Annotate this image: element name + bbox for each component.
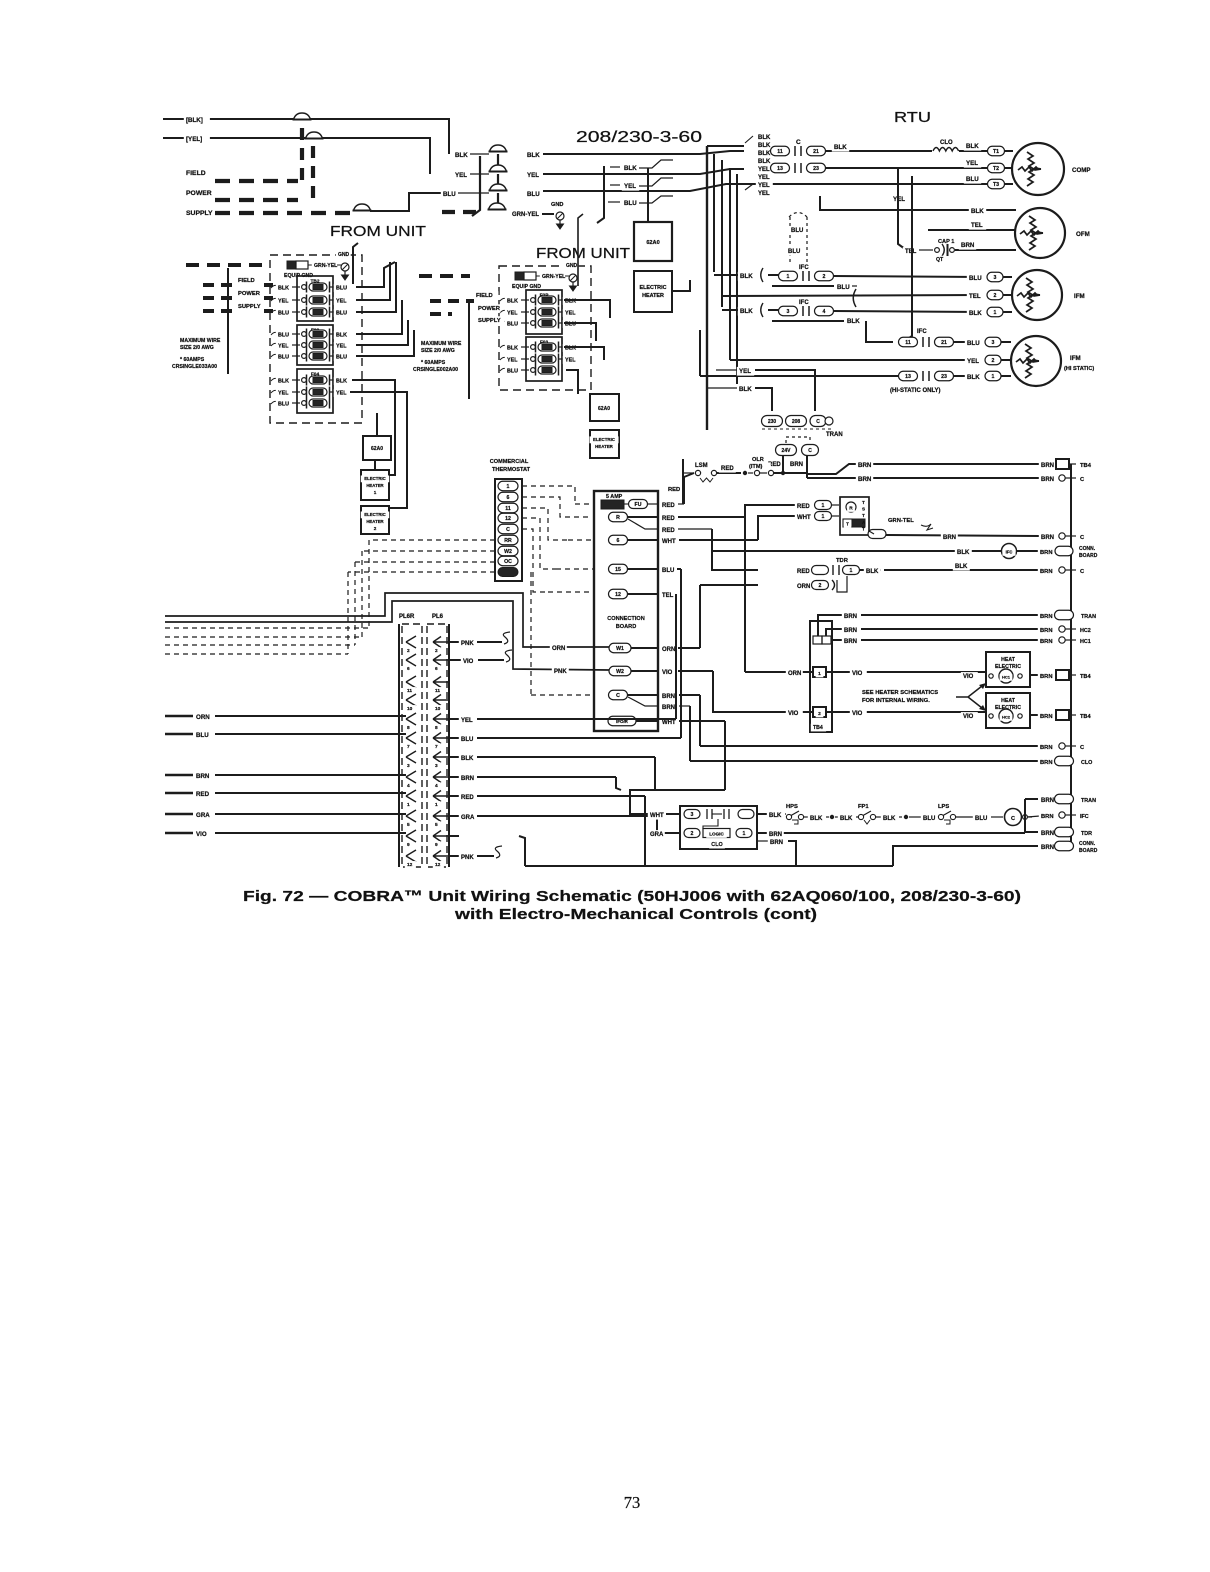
svg-text:TEL: TEL [969, 293, 981, 300]
svg-text:2: 2 [691, 831, 694, 837]
terminal 1 IFM [987, 307, 1003, 317]
dashed supply line [215, 211, 352, 215]
svg-text:BLU: BLU [278, 402, 289, 408]
dashed tstat left wire W2 [362, 550, 495, 552]
unit1 top dashed row [186, 263, 266, 267]
svg-text:73: 73 [624, 1493, 641, 1512]
svg-text:ORN: ORN [797, 584, 810, 590]
svg-text:BLU: BLU [336, 355, 347, 361]
svg-text:YEL: YEL [507, 311, 518, 317]
svg-text:POWER: POWER [478, 306, 501, 312]
wire ORN out of W1 [631, 647, 659, 649]
equip gnd lug 2 [515, 272, 524, 280]
unit1 label POWER [236, 289, 261, 297]
svg-text:BRN: BRN [1041, 477, 1054, 483]
wire row 846 to bus [893, 846, 1038, 866]
svg-text:GND: GND [551, 202, 563, 208]
thermostat terminal W2 [498, 546, 518, 556]
switch FP1 [858, 814, 863, 819]
svg-text:1: 1 [850, 568, 853, 574]
svg-text:BRN: BRN [1041, 463, 1054, 469]
fuse block TB2 unit1 row 3 (BLU) [271, 310, 278, 313]
oval terminal TRAN 615 [1055, 610, 1074, 620]
svg-text:MAXIMUM WIRE: MAXIMUM WIRE [421, 341, 462, 347]
svg-text:VIO: VIO [963, 674, 974, 680]
wire VIO into TB4 sq2 [758, 711, 813, 713]
svg-text:BLK: BLK [278, 286, 289, 292]
svg-text:2: 2 [818, 711, 821, 717]
IFC row1 contact 1-2 [768, 274, 779, 276]
contactor contact BLK 11-21 [771, 146, 790, 156]
label OLR ITM [750, 455, 766, 463]
svg-text:BLK: BLK [336, 379, 347, 385]
contactor coil C circle [1005, 809, 1022, 826]
svg-text:BLK: BLK [740, 273, 753, 280]
svg-text:MAXIMUM WIRE: MAXIMUM WIRE [180, 338, 221, 344]
svg-text:YEL: YEL [455, 172, 467, 179]
wire BRN from CLO to row832 [757, 832, 1025, 834]
thermostat terminal 1 [498, 481, 518, 491]
svg-text:6: 6 [507, 495, 510, 501]
label VIO before HC2 [961, 712, 978, 721]
svg-text:RED: RED [196, 791, 210, 798]
label POWER [184, 188, 212, 197]
gnd riser unit2 [578, 214, 583, 286]
svg-text:HC1: HC1 [1080, 639, 1091, 645]
unit1 label FIELD [236, 276, 261, 284]
terminal 1 IFM2 [985, 371, 1001, 381]
wire pin9 stub [450, 835, 459, 837]
svg-text:BLK: BLK [840, 816, 853, 822]
svg-text:IFC: IFC [799, 265, 809, 271]
vertical feeder to 62A0 upper [647, 168, 649, 222]
wire YEL to T2 [826, 167, 987, 169]
maximum wire note unit2 [419, 340, 467, 348]
svg-text:YEL: YEL [758, 175, 770, 181]
svg-text:POWER: POWER [238, 291, 261, 297]
svg-text:CAP 1: CAP 1 [938, 239, 954, 245]
svg-text:BOARD: BOARD [1079, 848, 1098, 854]
svg-text:HC2: HC2 [1002, 715, 1011, 720]
svg-text:YEL: YEL [758, 167, 770, 173]
terminal T2 COMP [988, 163, 1005, 173]
FROM UNIT 1 dashed enclosure [270, 255, 362, 423]
label BLK row left [453, 151, 470, 160]
svg-text:VIO: VIO [788, 711, 799, 717]
connector pin pair 2 [406, 636, 416, 648]
wire BRN row 478 to bus [807, 477, 1040, 479]
fuse block unit2 upper row 1 (BLK) [500, 298, 507, 301]
svg-text:OLR: OLR [752, 457, 764, 463]
trunk vertical V1 heavy [706, 146, 708, 430]
svg-text:6: 6 [617, 538, 620, 544]
svg-text:SUPPLY: SUPPLY [478, 318, 501, 324]
wire heater box to right [672, 280, 690, 291]
svg-text:GRA: GRA [196, 812, 210, 819]
svg-text:CONN.: CONN. [1079, 546, 1096, 552]
svg-text:62A0: 62A0 [646, 240, 659, 246]
svg-text:FOR INTERNAL WIRING.: FOR INTERNAL WIRING. [862, 698, 930, 704]
svg-text:ELECTRIC: ELECTRIC [640, 285, 667, 291]
svg-text:YEL: YEL [739, 368, 751, 375]
wire to GND [542, 213, 554, 215]
svg-text:W2: W2 [504, 549, 512, 555]
label GRN-YEL [510, 210, 544, 219]
label [BLK] [184, 116, 210, 125]
svg-text:10: 10 [407, 706, 413, 712]
connector pin pair 7 [406, 732, 416, 744]
unit1 label SUPPLY [236, 302, 265, 310]
wire BLK from TDR [860, 569, 881, 571]
svg-text:BLU: BLU [966, 176, 979, 183]
svg-text:HEATER: HEATER [366, 483, 384, 488]
svg-text:BLK: BLK [967, 374, 980, 381]
trunk vertical V4 [729, 168, 731, 360]
svg-text:T: T [862, 526, 865, 531]
PL6 solid right edge [448, 624, 450, 867]
svg-text:IFC: IFC [799, 300, 809, 306]
cap splice on L2 [306, 132, 323, 139]
stacked labels BLK x4 [756, 133, 773, 142]
svg-text:VIO: VIO [662, 670, 673, 676]
thermostat terminal 12 [498, 513, 518, 523]
fuse block F03 unit1 row 1 (BLU) [271, 332, 278, 335]
svg-text:1: 1 [787, 274, 790, 280]
svg-text:ORN: ORN [662, 647, 675, 653]
vertical from bottom wire up [519, 836, 525, 866]
svg-text:GRA: GRA [461, 815, 475, 821]
unit1 dashed stubs right [264, 283, 277, 287]
wire BRN row 464 to bus [872, 463, 1040, 465]
TRAN dashed base [762, 428, 832, 430]
connector pin pair 5 [406, 810, 416, 822]
svg-text:BLK: BLK [507, 299, 518, 305]
svg-text:LOGIC: LOGIC [709, 832, 724, 837]
label CONNECTION BOARD [604, 614, 648, 622]
svg-text:BRN: BRN [1040, 745, 1053, 751]
svg-text:IFM: IFM [1074, 293, 1085, 300]
svg-text:BOARD: BOARD [1079, 553, 1098, 559]
dashed riser 1 [300, 128, 304, 180]
trunk vertical V5 [736, 174, 738, 384]
svg-text:GRA: GRA [650, 832, 664, 838]
label GRN-YEL 2 [536, 275, 541, 277]
label COMMERCIAL THERMOSTAT [487, 457, 531, 465]
svg-text:with Electro-Mechanical Contro: with Electro-Mechanical Controls (cont) [454, 906, 817, 923]
FROM UNIT 2 dashed enclosure [499, 266, 591, 390]
fuse block unit2 upper [526, 290, 562, 334]
terminal IFO/R [608, 716, 636, 726]
svg-text:62A0: 62A0 [371, 446, 383, 452]
svg-text:5: 5 [407, 822, 410, 828]
label [YEL] [184, 135, 210, 144]
wire YEL drop to cap1 [898, 168, 905, 249]
svg-text:W1: W1 [616, 646, 624, 652]
trunk vertical B from RED517 [744, 517, 746, 585]
note arrow lines [956, 686, 982, 708]
TSTAT block box [840, 497, 869, 535]
trunk vertical D BLU569 [680, 569, 682, 738]
thermostat terminal OC [498, 556, 518, 566]
svg-text:CLO: CLO [711, 842, 722, 848]
svg-text:23: 23 [941, 374, 947, 380]
svg-text:TRAN: TRAN [1081, 614, 1096, 620]
unit1 dashed stubs left [203, 283, 236, 287]
wire ORN left feeder [165, 715, 193, 717]
svg-text:BLU: BLU [196, 732, 209, 739]
dashed tstat left wire RR [369, 539, 495, 541]
svg-text:12: 12 [505, 516, 511, 522]
connector pin pair 10 [406, 694, 416, 706]
wire BLK pin3 elbow to CLO WHT [654, 757, 656, 790]
svg-text:BLU: BLU [278, 311, 289, 317]
unit2 supply bus vertical [468, 300, 470, 399]
unit2 dashed stubs [430, 299, 474, 303]
thermostat terminal 11 [498, 503, 518, 513]
svg-text:GND: GND [566, 263, 578, 269]
wire RED pin1 [450, 795, 459, 797]
wire BLK pin3 [450, 756, 459, 758]
svg-text:11: 11 [435, 688, 440, 694]
trunk vertical I BRN706 [689, 706, 691, 761]
dashed tstat wire 12 [522, 518, 556, 569]
connector pin pair 11 [406, 676, 416, 688]
wire L2 YEL feeder [163, 138, 430, 174]
svg-text:ELECTRIC: ELECTRIC [364, 512, 386, 517]
svg-text:IFM: IFM [1070, 355, 1081, 362]
TRAN secondary 24V [776, 445, 797, 456]
svg-text:BRN: BRN [1040, 628, 1053, 634]
dashed field line [215, 179, 298, 183]
TRAN secondary C [802, 445, 819, 456]
svg-text:BRN: BRN [1040, 569, 1053, 575]
svg-text:HEAT: HEAT [1001, 657, 1016, 663]
svg-text:BLU: BLU [624, 200, 637, 207]
svg-text:BRN: BRN [1040, 714, 1053, 720]
svg-text:1: 1 [374, 490, 377, 495]
svg-text:3: 3 [787, 309, 790, 315]
svg-text:BLU: BLU [507, 322, 518, 328]
svg-text:BRN: BRN [1040, 760, 1053, 766]
svg-text:BLU: BLU [278, 355, 289, 361]
oval terminal CONN BOARD 846 [1055, 841, 1074, 851]
svg-text:YEL: YEL [966, 160, 978, 167]
wire BRN row 815 from coil [1027, 816, 1040, 817]
svg-text:* 60AMPS: * 60AMPS [421, 360, 446, 366]
capacitor CAP1 [903, 247, 920, 256]
label RED tstat row [795, 502, 812, 511]
svg-text:5: 5 [435, 822, 438, 828]
cap on YEL row [490, 165, 507, 172]
wire BLU from 15 [628, 568, 659, 570]
unit1 TB2 risers right [356, 262, 395, 287]
svg-text:BLK: BLK [758, 159, 771, 165]
svg-text:BRN: BRN [1040, 550, 1053, 556]
wire ORN from left to W1 [165, 593, 609, 647]
connector pin pair 12 [406, 850, 416, 862]
svg-text:FROM UNIT: FROM UNIT [330, 223, 426, 240]
svg-text:BLK: BLK [739, 386, 752, 393]
svg-text:RED: RED [797, 569, 810, 575]
oval terminal CLO 761 [1055, 756, 1074, 766]
branch label BLU mid [622, 199, 639, 208]
heat electric box 1 [986, 652, 1030, 687]
note SEE HEATER SCHEMATICS [860, 688, 950, 696]
svg-text:BRN: BRN [1040, 614, 1053, 620]
wire BRN pin4 [450, 776, 459, 778]
svg-text:3: 3 [407, 763, 410, 769]
wire PNK pin2 squiggle [450, 641, 459, 643]
svg-text:YEL: YEL [565, 311, 576, 317]
svg-text:SUPPLY: SUPPLY [186, 210, 213, 217]
wire BLK to T1 [959, 150, 987, 152]
svg-text:PNK: PNK [554, 669, 567, 675]
wire BLK after FP1 [876, 816, 881, 818]
vertical drop to IFC row3 [903, 176, 912, 342]
svg-text:BLK: BLK [740, 308, 753, 315]
unit2 label SUPPLY [476, 316, 505, 324]
svg-text:BLK: BLK [455, 152, 468, 159]
wire VIO out TB4 sq1 [826, 671, 986, 673]
unit2 label FIELD [474, 291, 499, 299]
svg-text:BRN: BRN [790, 462, 803, 468]
wire BRN IFC coil to terminal [1017, 550, 1038, 552]
dashed supply cont [442, 210, 480, 214]
wire RED pin1 drop to bottom wire [644, 796, 646, 866]
svg-text:BLU: BLU [788, 249, 800, 255]
dashed inputs to connection board [568, 539, 594, 541]
wire TEL to IFM terminal 2 [722, 295, 981, 296]
wire elbow into row4 [699, 330, 701, 376]
wire GRA pin5 [450, 815, 459, 817]
svg-text:ORN: ORN [196, 714, 210, 721]
terminal 15 [609, 564, 628, 574]
dashed tstat wire 1 to FU [522, 486, 575, 504]
label CAP 1 [936, 237, 960, 245]
svg-text:WHT: WHT [650, 813, 664, 819]
svg-text:BLK: BLK [461, 756, 474, 762]
cap on BLU row [490, 184, 507, 191]
svg-text:RED: RED [668, 487, 680, 493]
wire BLK to IFC coil row 551 [713, 550, 1001, 552]
wire YEL to IFM2 terminal 2 [730, 359, 980, 361]
wire TSTAT to C row 536 [868, 530, 886, 539]
svg-text:RR: RR [504, 538, 512, 544]
svg-text:11: 11 [905, 340, 911, 346]
fuse block TB2 unit1 row 2 (YEL) [271, 298, 278, 301]
dashed power line [215, 198, 298, 202]
label GRN-YEL 1 [308, 264, 313, 266]
TB4 top squares [813, 636, 822, 644]
svg-text:1: 1 [507, 484, 510, 490]
svg-text:HPS: HPS [786, 804, 798, 810]
svg-text:BRN: BRN [1040, 674, 1053, 680]
svg-text:BRN: BRN [844, 639, 857, 645]
wire YEL phase row [525, 171, 542, 180]
connector pin pair 4 [406, 771, 416, 783]
svg-text:4: 4 [435, 783, 438, 789]
wire BLU branch under row1 [772, 285, 834, 287]
svg-text:BLK: BLK [758, 135, 771, 141]
svg-text:S: S [862, 507, 865, 512]
svg-text:T1: T1 [993, 149, 999, 155]
svg-text:BOARD: BOARD [616, 624, 637, 630]
svg-text:TB4: TB4 [813, 725, 823, 731]
svg-text:GND: GND [338, 252, 350, 258]
hi-static motor IFM2 [1011, 336, 1061, 386]
wire RED to TDR contact [795, 567, 812, 576]
terminal 12 [609, 589, 628, 599]
svg-text:(ITM): (ITM) [749, 464, 762, 470]
svg-text:BRN: BRN [770, 840, 783, 846]
svg-text:1: 1 [435, 802, 438, 808]
wire BRN to OFM [955, 249, 1016, 251]
CLO inner link [703, 819, 718, 829]
svg-text:TEL: TEL [905, 249, 917, 255]
svg-text:BLU: BLU [662, 568, 674, 574]
svg-text:2: 2 [994, 293, 997, 299]
svg-text:CONNECTION: CONNECTION [607, 616, 645, 622]
label PL6 [430, 612, 447, 621]
fuse block F04 unit1 row 1 (BLK) [271, 378, 278, 381]
unit1 supply bus vertical [227, 268, 229, 374]
label GRN-TEL [886, 516, 919, 524]
bottom long wire [525, 865, 796, 867]
junction dot 2 [899, 816, 902, 818]
unit2 label POWER [476, 304, 501, 312]
CLO bottom row [684, 829, 700, 838]
svg-text:VIO: VIO [963, 714, 974, 720]
svg-text:BRN: BRN [858, 462, 872, 469]
svg-text:LSM: LSM [695, 463, 708, 469]
svg-text:15: 15 [615, 567, 621, 573]
svg-text:1: 1 [992, 374, 995, 380]
svg-text:OC: OC [504, 559, 512, 565]
branch label YEL mid [622, 182, 639, 191]
svg-text:SIZE 2/0 AWG: SIZE 2/0 AWG [180, 345, 214, 351]
trunk vertical H BRN695 [699, 695, 701, 746]
heater riser 1 [376, 380, 395, 475]
label QT [934, 256, 946, 264]
svg-text:BRN: BRN [858, 476, 872, 483]
wire RED far-left drop [682, 459, 684, 504]
connector pin pair 9 [406, 830, 416, 842]
label EQUIP GND 1 [282, 272, 319, 280]
svg-text:POWER: POWER [186, 190, 212, 197]
svg-text:BLU: BLU [969, 275, 982, 282]
svg-text:BLK: BLK [527, 152, 540, 159]
svg-text:TB4: TB4 [1080, 714, 1091, 720]
svg-text:TB4: TB4 [1080, 463, 1092, 469]
svg-text:RED: RED [662, 516, 675, 522]
wire BLK mid [835, 816, 838, 818]
terminal 3 IFM2 [985, 337, 1001, 347]
IFC coil circle [1002, 544, 1017, 559]
svg-text:HC2: HC2 [1080, 628, 1091, 634]
fuse block unit2 lower row 1 (BLK) [500, 345, 507, 348]
svg-text:PNK: PNK [461, 641, 474, 647]
wire F04 to 62A0 left [376, 413, 378, 436]
svg-text:5 AMP: 5 AMP [606, 494, 623, 500]
wire VIO pin6 squiggle [450, 659, 461, 661]
svg-text:1: 1 [994, 310, 997, 316]
svg-text:TDR: TDR [1081, 831, 1092, 837]
IFC row2 contact 3-4 [768, 309, 779, 311]
fuse block unit2 upper row 2 (YEL) [500, 310, 507, 313]
junction dot after RED [743, 471, 747, 475]
heater riser 2 [370, 392, 407, 508]
svg-text:7: 7 [435, 744, 438, 750]
